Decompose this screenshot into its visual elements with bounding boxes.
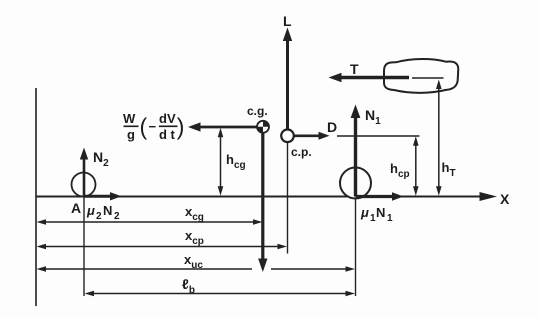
dimension x_cg	[37, 204, 263, 225]
extension line below c.p.	[287, 142, 289, 254]
dimension x_cp	[37, 228, 288, 249]
right wheel	[340, 168, 371, 199]
X axis	[36, 191, 510, 207]
dimension h_cg	[218, 128, 246, 196]
svg-text:dV: dV	[159, 111, 176, 126]
svg-text:L: L	[283, 13, 292, 29]
thrust line inside nacelle	[412, 77, 444, 79]
svg-text:μ: μ	[86, 203, 95, 218]
friction force mu1 N1	[356, 192, 404, 224]
c.g. marker	[247, 104, 269, 133]
weight vector from c.g.	[258, 127, 267, 272]
svg-text:g: g	[127, 127, 135, 142]
left wheel	[72, 173, 96, 197]
friction force mu2 N2	[84, 192, 122, 222]
svg-text:T: T	[350, 61, 359, 77]
dimension h_cp	[390, 136, 419, 195]
svg-text:−: −	[149, 119, 157, 134]
svg-text:c.p.: c.p.	[291, 145, 312, 159]
svg-text:W: W	[123, 111, 136, 126]
dimension x_uc	[37, 252, 356, 272]
svg-text:): )	[177, 114, 185, 140]
force L	[283, 13, 292, 131]
force N2	[80, 148, 109, 197]
deceleration force W/g(-dV/dt)	[123, 111, 263, 142]
c.p. marker	[281, 130, 311, 160]
force T	[329, 61, 410, 82]
extension line at c.p. level for h_cp	[337, 135, 420, 137]
svg-text:D: D	[327, 119, 337, 135]
svg-text:A: A	[71, 200, 81, 216]
extension line below right wheel	[355, 197, 357, 296]
left reference line	[35, 88, 37, 306]
force D	[294, 119, 337, 140]
svg-text:c.g.: c.g.	[247, 104, 268, 118]
dimension l_b	[85, 276, 356, 296]
svg-text:1: 1	[387, 213, 393, 224]
extension line below left wheel	[83, 197, 85, 296]
svg-text:2: 2	[96, 211, 102, 222]
engine nacelle	[384, 59, 458, 93]
dimension h_T	[436, 80, 456, 196]
svg-text:N: N	[376, 205, 385, 220]
svg-text:X: X	[500, 191, 510, 207]
svg-text:d t: d t	[159, 127, 176, 142]
svg-text:2: 2	[114, 211, 120, 222]
svg-text:N: N	[103, 203, 112, 218]
svg-text:μ: μ	[360, 205, 369, 220]
force N1	[351, 105, 382, 197]
svg-text:(: (	[140, 114, 148, 140]
